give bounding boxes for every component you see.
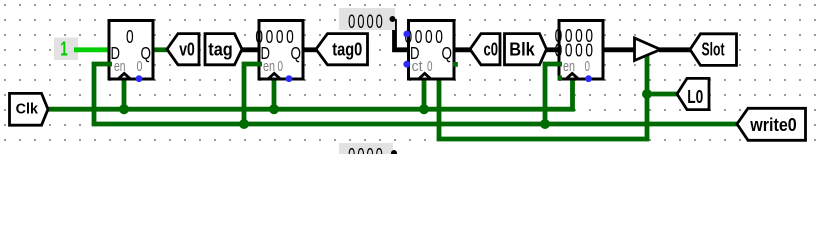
svg-text:en: en — [263, 59, 275, 75]
node FF2 en port — [258, 62, 263, 67]
wire FF3 Q to c0 (bus) — [454, 47, 472, 52]
wire FF1 clock — [122, 79, 127, 109]
wire FF1 Q to v0 — [152, 47, 168, 52]
wire write0 net row — [94, 64, 737, 124]
junction node Clk-FF2 — [269, 104, 279, 114]
node FF4 reset (blue, floating) — [585, 75, 592, 82]
tunnel Slot — [690, 34, 737, 66]
svg-text:Clk: Clk — [16, 102, 39, 118]
tunnel v0 — [167, 34, 199, 65]
svg-text:0000: 0000 — [348, 10, 385, 32]
probe 0000 (top) — [339, 8, 395, 33]
tunnel Blk — [505, 34, 547, 65]
node FF4 bottom-left port — [558, 76, 563, 81]
node FF1 en port — [108, 62, 113, 67]
wire Clk net row — [47, 79, 573, 109]
svg-text:tag0: tag0 — [332, 39, 362, 59]
flip-flop FF1 (D flip-flop, v0) — [109, 21, 153, 80]
svg-text:0: 0 — [126, 27, 136, 47]
flip-flop FF3 (counter, c0) — [404, 21, 454, 80]
svg-text:write0: write0 — [749, 115, 796, 135]
svg-text:0: 0 — [427, 59, 433, 75]
node FF3 carry out port — [453, 62, 458, 67]
junction node Clk-FF3 — [419, 104, 429, 114]
junction node Clk-FF1 — [119, 104, 129, 114]
svg-text:L0: L0 — [687, 87, 703, 107]
svg-text:1: 1 — [60, 38, 68, 60]
svg-text:0: 0 — [137, 59, 143, 75]
junction node L0 branch — [642, 89, 652, 99]
tri-state buffer U1 — [635, 38, 661, 61]
junction node write0-FF4 — [540, 119, 550, 129]
node FF3 up/down port (blue, floating) — [403, 61, 410, 68]
tunnel Clk — [10, 93, 49, 125]
wire FF2 en — [244, 64, 259, 124]
wire FF3 clock — [422, 79, 427, 109]
wire FF2 Q to tag0 (bus) — [302, 47, 317, 52]
svg-text:v0: v0 — [179, 39, 195, 59]
flip-flop FF4 (register, Blk) — [555, 21, 603, 80]
svg-text:0: 0 — [278, 59, 284, 75]
node FF3 load port (blue, floating) — [403, 31, 410, 38]
wire tag to FF2 D (bus) — [241, 47, 260, 52]
svg-text:Q: Q — [291, 43, 302, 63]
node probe attachment — [390, 16, 396, 22]
svg-text:Blk: Blk — [509, 39, 535, 59]
svg-text:c0: c0 — [484, 39, 499, 59]
wire Blk to FF4 D (bus) — [545, 47, 560, 52]
node bottom probe attachment — [391, 150, 397, 156]
node FF2 reset (blue, floating) — [286, 75, 293, 82]
svg-text:0: 0 — [585, 59, 591, 75]
svg-text:tag: tag — [208, 39, 233, 59]
wire L0 net — [439, 54, 678, 139]
probe 0000 (bottom) — [339, 143, 393, 166]
tunnel tag — [205, 34, 242, 65]
tunnel L0 — [677, 78, 709, 109]
wire buffer to Slot (bus) — [659, 47, 691, 52]
tunnel c0 — [470, 34, 500, 65]
wire constant to FF1 D (value 1) — [74, 47, 110, 52]
node FF4 en port — [558, 62, 563, 67]
wire probe to FF3 D (bus) — [395, 19, 409, 50]
svg-text:en: en — [563, 59, 575, 75]
junction node write0-FF2 — [239, 119, 249, 129]
tunnel write0 — [737, 108, 806, 140]
wire FF2 clock — [272, 79, 277, 109]
svg-text:Q: Q — [442, 43, 453, 63]
constant 1 — [54, 38, 78, 61]
svg-text:Slot: Slot — [702, 39, 725, 59]
flip-flop FF2 (D flip-flop, tag) — [255, 21, 303, 80]
svg-text:0000: 0000 — [348, 144, 385, 154]
node FF1 reset (blue, floating) — [136, 75, 143, 82]
wire FF4 Q to buffer (bus) — [603, 47, 636, 52]
wire FF4 en — [545, 64, 559, 124]
tunnel tag0 — [316, 34, 368, 65]
svg-text:ct: ct — [412, 59, 423, 75]
